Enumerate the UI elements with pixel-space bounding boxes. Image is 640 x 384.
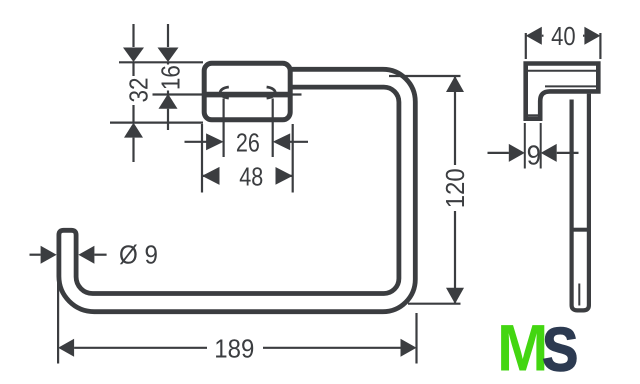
svg-text:S: S (542, 316, 578, 384)
svg-text:Ø 9: Ø 9 (119, 240, 158, 270)
svg-text:26: 26 (236, 127, 260, 157)
svg-text:189: 189 (214, 333, 254, 363)
svg-text:9: 9 (527, 140, 542, 171)
svg-text:M: M (497, 311, 548, 384)
svg-text:40: 40 (551, 21, 576, 51)
svg-text:16: 16 (155, 65, 185, 90)
svg-text:48: 48 (239, 162, 263, 192)
svg-text:32: 32 (123, 78, 153, 103)
svg-text:120: 120 (440, 168, 470, 208)
